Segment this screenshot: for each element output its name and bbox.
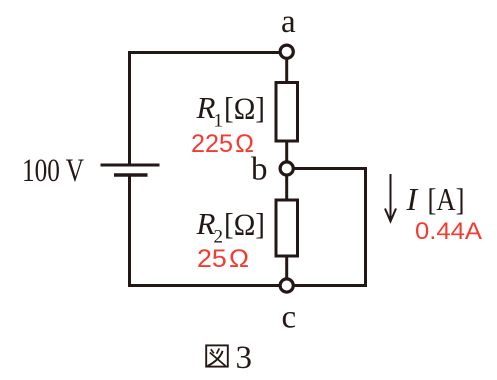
svg-text:225 Ω: 225 Ω bbox=[191, 130, 254, 158]
svg-text:a: a bbox=[281, 4, 296, 40]
current arrow I (downward) bbox=[385, 174, 396, 221]
wire bottom (left corner to node c) bbox=[128, 284, 287, 287]
battery V1 short plate (-) bbox=[114, 173, 148, 177]
svg-text:[Ω]: [Ω] bbox=[224, 91, 265, 126]
svg-text:[A]: [A] bbox=[428, 181, 465, 217]
resistor R2 body bbox=[276, 200, 298, 256]
svg-text:100 V: 100 V bbox=[22, 153, 84, 189]
wire left upper (corner to battery +) bbox=[128, 51, 131, 165]
wire node b to R2 top bbox=[285, 169, 288, 201]
wire top (node a to left corner) bbox=[128, 51, 287, 54]
wire right branch bottom to node c bbox=[287, 284, 367, 287]
wire left lower (battery - to bottom corner) bbox=[128, 175, 131, 287]
wire R2 bottom to node c bbox=[285, 257, 288, 286]
battery V1 long plate (+) bbox=[101, 164, 160, 167]
svg-text:I: I bbox=[406, 181, 419, 217]
svg-text:R: R bbox=[196, 206, 216, 241]
svg-text:0.44A: 0.44A bbox=[415, 218, 482, 245]
svg-text:c: c bbox=[282, 300, 297, 336]
resistor R1 body bbox=[276, 83, 298, 142]
caption: figure number glyph (zu) drawn bbox=[206, 345, 228, 366]
node c terminal circle bbox=[280, 279, 293, 292]
svg-text:25 Ω: 25 Ω bbox=[197, 245, 249, 273]
svg-text:3: 3 bbox=[236, 340, 253, 376]
svg-text:R: R bbox=[196, 90, 216, 125]
svg-text:1: 1 bbox=[214, 111, 224, 132]
svg-text:[Ω]: [Ω] bbox=[224, 207, 265, 242]
wire R1 bottom to node b bbox=[285, 141, 288, 169]
wire node a to R1 top bbox=[285, 52, 288, 82]
wire right branch vertical bbox=[364, 167, 367, 287]
wire node b to right branch (horizontal) bbox=[287, 167, 367, 170]
node b terminal circle bbox=[280, 162, 293, 175]
node a terminal circle bbox=[280, 45, 293, 58]
